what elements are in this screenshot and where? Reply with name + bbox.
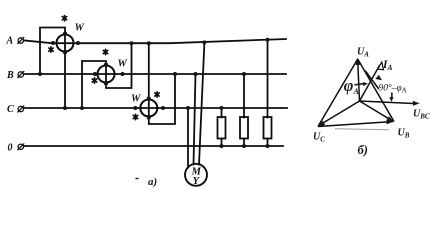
svg-text:W: W — [75, 23, 85, 34]
svg-text:б): б) — [358, 143, 368, 157]
svg-text:W: W — [118, 59, 128, 70]
svg-text:0: 0 — [8, 143, 13, 154]
svg-text:а): а) — [148, 176, 157, 188]
svg-text:B: B — [6, 70, 14, 81]
svg-text:W: W — [131, 94, 141, 105]
svg-text:C: C — [7, 104, 14, 115]
svg-text:A: A — [6, 36, 14, 47]
